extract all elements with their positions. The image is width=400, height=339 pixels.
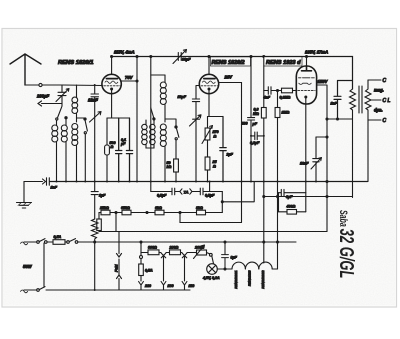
capacitor 1nF ground xyxy=(24,178,49,185)
svg-text:RENS1820/1: RENS1820/1 xyxy=(234,270,238,288)
resistor 25 ohm xyxy=(205,140,210,182)
cap 3uF right xyxy=(279,189,306,211)
coil L1 xyxy=(52,121,58,182)
wire V1 screen 70V xyxy=(122,80,137,82)
capacitor 1nF across primary xyxy=(334,81,353,121)
switch S2 with resistor 50k xyxy=(165,119,179,182)
zigzag resistor (dropper) xyxy=(92,219,99,290)
terminal 160 xyxy=(161,282,166,291)
transformer core xyxy=(359,86,362,113)
heater chain xyxy=(232,262,278,269)
svg-text:RENS 1820/2: RENS 1820/2 xyxy=(212,60,245,66)
IF transformer feed wire xyxy=(151,57,165,192)
svg-text:110: 110 xyxy=(189,284,195,288)
switch S1b xyxy=(77,118,88,182)
tube V3 RENS 1923d xyxy=(296,57,316,105)
svg-text:dyn.: dyn. xyxy=(374,108,383,113)
variable resistor lamp series xyxy=(189,245,214,264)
label RENS 1923d boxed xyxy=(264,57,302,66)
svg-text:Ω: Ω xyxy=(212,165,216,169)
svg-text:50W: 50W xyxy=(23,264,33,269)
mains rail upper xyxy=(21,239,297,245)
svg-text:0,3MΩ: 0,3MΩ xyxy=(280,96,291,100)
svg-text:μF: μF xyxy=(120,142,126,146)
resistor 650 xyxy=(122,210,155,215)
svg-text:0,5A: 0,5A xyxy=(145,269,153,273)
svg-text:C: C xyxy=(383,118,387,124)
svg-text:220: 220 xyxy=(144,284,151,288)
jack 7A xyxy=(180,189,192,195)
svg-text:260Ω: 260Ω xyxy=(194,246,204,250)
svg-text:1nF: 1nF xyxy=(51,186,58,190)
tap 2 xyxy=(181,253,190,282)
resistor 6k xyxy=(155,210,197,215)
svg-text:100: 100 xyxy=(242,122,248,126)
svg-text:400Ω: 400Ω xyxy=(286,205,296,209)
resistor 0.3M vertical (grid leak) xyxy=(261,57,266,182)
svg-text:pF: pF xyxy=(252,122,258,126)
terminal 220 xyxy=(139,282,144,291)
capacitor 0.2uF xyxy=(250,132,265,140)
resistor 280 ohm xyxy=(170,250,181,255)
svg-text:5nF: 5nF xyxy=(264,96,271,100)
svg-text:8kΩ: 8kΩ xyxy=(196,206,203,210)
svg-text:10pF: 10pF xyxy=(178,95,187,99)
antenna coil L0 xyxy=(72,85,78,122)
svg-text:0,5A: 0,5A xyxy=(54,235,62,239)
capacitor 2uF xyxy=(220,117,226,182)
capacitor 8uF xyxy=(217,242,232,270)
svg-text:10nF: 10nF xyxy=(300,162,309,166)
tube V1 RENS 1820/1 xyxy=(102,57,121,94)
Saba 32 G/GL title xyxy=(335,210,358,278)
svg-text:Feld: Feld xyxy=(115,264,119,272)
tube V2 RENS 1820/2 xyxy=(199,57,218,94)
coil L3 xyxy=(72,124,78,182)
field coil connector xyxy=(94,232,122,292)
svg-text:650Ω: 650Ω xyxy=(121,206,130,210)
svg-text:6kΩ: 6kΩ xyxy=(155,206,162,210)
variable trimmer on grid line xyxy=(190,115,202,126)
wire V2 anode right xyxy=(219,83,242,223)
svg-text:160: 160 xyxy=(168,284,174,288)
capacitor screen bypass xyxy=(126,118,132,182)
svg-text:0,3: 0,3 xyxy=(254,108,259,112)
svg-text:kΩ: kΩ xyxy=(167,165,172,169)
resistor 330 ohm xyxy=(148,250,159,255)
wire antenna to tuning line xyxy=(62,84,102,87)
tone branch xyxy=(316,136,327,138)
coil L2 xyxy=(61,124,67,182)
capacitor 10nF tone with arrow xyxy=(311,137,322,182)
svg-text:20V: 20V xyxy=(224,75,234,80)
svg-text:7A: 7A xyxy=(184,190,189,195)
V3 cathode line xyxy=(305,98,307,212)
capacitor 80pF trimmer on rail xyxy=(173,50,187,64)
voltage selector chain xyxy=(140,242,149,259)
svg-text:0,5μF: 0,5μF xyxy=(157,194,167,198)
terminal C top xyxy=(368,79,381,81)
resistor 400 ohm xyxy=(279,210,306,215)
antenna xyxy=(10,54,62,87)
coil pair L6 xyxy=(142,118,155,148)
resistor left vertical xyxy=(97,213,102,232)
svg-text:280Ω: 280Ω xyxy=(169,246,179,250)
link wires xyxy=(115,213,117,232)
bottom rail xyxy=(50,181,368,183)
output choke / transformer primary xyxy=(350,89,356,198)
resistor 8k xyxy=(197,210,223,215)
variable arrow on C2 xyxy=(90,112,102,123)
mains rail lower xyxy=(21,287,191,293)
terminal 110 xyxy=(182,282,187,291)
switch link bar xyxy=(43,243,45,287)
svg-text:RENS1923: RENS1923 xyxy=(248,270,252,286)
svg-text:115V, 4mA: 115V, 4mA xyxy=(114,50,135,55)
svg-text:0,5μF: 0,5μF xyxy=(205,194,215,198)
nested wires right xyxy=(264,196,353,198)
svg-text:200pF: 200pF xyxy=(36,94,50,99)
waveband switch S1a xyxy=(56,106,67,124)
capacitor 5nF coupling xyxy=(264,87,282,94)
capacitor 0.5uF second xyxy=(192,188,222,195)
svg-text:mag.: mag. xyxy=(374,88,384,93)
svg-text:RENS 1820/1: RENS 1820/1 xyxy=(58,60,93,66)
antenna input 2 arrow xyxy=(38,101,62,106)
wire anode to primary bottom xyxy=(327,118,353,120)
capacitor C2 10nF (tuning) xyxy=(91,85,99,182)
wire screen tap xyxy=(222,182,254,202)
svg-text:1μF: 1μF xyxy=(99,194,106,198)
terminal C bottom xyxy=(368,119,381,121)
label RENS 1820/2 boxed xyxy=(211,57,251,66)
svg-text:10nF: 10nF xyxy=(88,98,98,103)
svg-text:2μF: 2μF xyxy=(226,153,234,157)
capacitor 100pF xyxy=(248,57,255,182)
coil L4 (IF primary) xyxy=(160,75,166,122)
svg-text:8μF: 8μF xyxy=(231,256,238,260)
svg-text:MΩ: MΩ xyxy=(253,112,259,116)
potentiometer 270 ohm xyxy=(202,117,213,144)
svg-text:Ω: Ω xyxy=(213,135,217,139)
svg-text:80pF: 80pF xyxy=(182,58,191,62)
V1 cathode network xyxy=(107,90,130,118)
svg-text:70V: 70V xyxy=(125,75,134,80)
tap 1 xyxy=(159,253,170,282)
resistor 0.3M horizontal xyxy=(282,88,297,93)
V2 cathode network xyxy=(208,90,224,117)
svg-text:1MΩ: 1MΩ xyxy=(282,111,290,115)
svg-text:C: C xyxy=(383,78,387,84)
tap to rail xyxy=(209,182,211,192)
svg-text:1nF: 1nF xyxy=(331,102,338,106)
svg-text:0,2μF: 0,2μF xyxy=(250,141,260,145)
svg-text:4,5V, 0,2A: 4,5V, 0,2A xyxy=(202,276,220,280)
svg-text:RENS1820/2: RENS1820/2 xyxy=(261,270,265,288)
wire screen bus xyxy=(136,58,138,182)
svg-text:Ω: Ω xyxy=(110,145,114,149)
resistor 25k xyxy=(99,210,122,215)
terminal C L xyxy=(371,99,381,101)
pickup row: capacitor 0.5uF xyxy=(151,188,180,195)
resistor 500 ohm xyxy=(105,118,110,182)
svg-text:C L: C L xyxy=(383,98,391,104)
resistor 1M vertical xyxy=(275,91,280,182)
svg-text:330Ω: 330Ω xyxy=(148,246,157,250)
fuse 0.5A vertical xyxy=(139,259,144,282)
top rail xyxy=(112,57,353,90)
svg-text:150V: 150V xyxy=(318,79,329,84)
svg-text:RENS 1923 d: RENS 1923 d xyxy=(266,60,301,66)
filter cap / field coil branch xyxy=(91,182,98,220)
svg-text:270: 270 xyxy=(212,130,219,134)
capacitor 10pF grid V2 xyxy=(192,86,199,182)
svg-text:165V, 17mA: 165V, 17mA xyxy=(305,50,328,55)
coil L5 (IF secondary) xyxy=(160,124,166,182)
wire V3 anode right xyxy=(317,85,328,232)
capacitor C1 200pF (antenna trimmer) xyxy=(56,85,69,106)
dial lamp xyxy=(207,264,218,275)
ground xyxy=(17,182,32,209)
svg-text:25kΩ: 25kΩ xyxy=(99,206,109,210)
capacitor 0.1uF xyxy=(116,118,122,182)
transformer secondary xyxy=(365,80,371,182)
